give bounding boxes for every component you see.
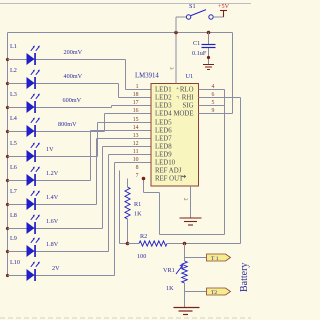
svg-text:11: 11 <box>133 149 139 155</box>
node on REF OUT pin wire <box>142 177 146 181</box>
wire: top bus horizontal <box>8 32 233 34</box>
svg-text:RLO: RLO <box>180 87 194 94</box>
node junction on bus at L6 row <box>6 179 9 182</box>
LED L5 <box>27 143 40 162</box>
svg-text:U1: U1 <box>186 73 194 80</box>
switch S1 <box>186 10 213 20</box>
wire: L8 riser to pin row <box>102 147 104 229</box>
wire: pin8 REF ADJ down <box>119 171 121 244</box>
svg-text:2V: 2V <box>52 265 60 272</box>
wire: switch left riser <box>175 17 177 33</box>
svg-text:LED1: LED1 <box>155 87 172 94</box>
wire: pin row 2 into IC <box>119 97 152 99</box>
svg-text:L7: L7 <box>10 188 17 195</box>
wire: pin8 elbow to node <box>120 243 128 245</box>
svg-text:17: 17 <box>133 100 139 106</box>
wire: L9 riser to pin row <box>108 155 110 252</box>
node junction on bus at L5 row <box>6 155 9 158</box>
wire: L4 row horizontal <box>8 131 105 133</box>
power +5V <box>220 11 227 18</box>
svg-text:800mV: 800mV <box>58 121 77 128</box>
IC U1 LM3914 <box>151 84 199 187</box>
wire: L1 riser to pin row <box>125 60 127 90</box>
LED L2 <box>27 70 40 89</box>
svg-text:1.4V: 1.4V <box>46 194 59 201</box>
wire: pin row 6 into IC <box>91 130 152 132</box>
wire: L3 riser to pin row <box>111 106 113 108</box>
LED L1 <box>27 46 40 65</box>
svg-text:1.8V: 1.8V <box>46 241 59 248</box>
wire: pin4 RLO <box>199 89 225 91</box>
svg-text:VR1: VR1 <box>163 267 175 274</box>
svg-text:LED2: LED2 <box>155 95 172 102</box>
svg-text:400mV: 400mV <box>64 73 83 80</box>
svg-text:LM3914: LM3914 <box>135 73 159 80</box>
svg-text:1.2V: 1.2V <box>46 170 59 177</box>
wire: L2 row horizontal <box>8 83 119 85</box>
sheet border bottom (faint dashes) <box>0 317 251 319</box>
terminal T1 <box>207 254 231 261</box>
potentiometer VR1 zigzag <box>182 261 188 283</box>
svg-text:Battery: Battery <box>239 263 250 292</box>
wire: pin row 3 into IC <box>112 105 152 107</box>
svg-text:LED3: LED3 <box>155 103 172 110</box>
svg-text:1.6V: 1.6V <box>46 218 59 225</box>
node junction on bus at L10 row <box>6 274 9 277</box>
wire: pin row 4 into IC <box>105 113 152 115</box>
wire: VR1 bottom lead <box>184 283 186 307</box>
wire: pin9 MODE <box>199 113 233 115</box>
LED L6 <box>27 167 40 186</box>
sheet border top <box>0 3 251 5</box>
svg-text:LED7: LED7 <box>155 136 172 143</box>
svg-text:L2: L2 <box>10 67 17 74</box>
wire: pin row 9 into IC <box>109 154 152 156</box>
wire: switch right lead <box>213 16 223 18</box>
wire: pin7 stub down <box>127 179 129 188</box>
svg-text:200mV: 200mV <box>64 49 83 56</box>
svg-text:1V: 1V <box>46 146 54 153</box>
svg-text:15: 15 <box>133 117 139 123</box>
ground G1 under C1 <box>203 65 214 70</box>
VR1 wiper arrow <box>176 266 182 274</box>
svg-text:LED8: LED8 <box>155 144 172 151</box>
svg-text:L5: L5 <box>10 140 17 147</box>
wire: REF OUT branch step <box>144 192 160 194</box>
LED L3 <box>27 94 40 113</box>
node junction on bus at L9 row <box>6 250 9 253</box>
wire: vertical A from RLO down <box>224 90 226 235</box>
LED L8 <box>27 215 40 234</box>
svg-text:R2: R2 <box>140 233 147 240</box>
pin numbers right column <box>212 84 215 114</box>
wire: L8 row horizontal <box>8 228 103 230</box>
svg-text:LED5: LED5 <box>155 120 172 127</box>
svg-text:14: 14 <box>133 125 139 131</box>
svg-text:100: 100 <box>137 253 146 260</box>
svg-text:LED10: LED10 <box>155 160 176 167</box>
svg-text:18: 18 <box>133 92 139 98</box>
wire: pin row 8 into IC <box>103 146 152 148</box>
wire: R2 right lead to SIG drop <box>167 243 241 245</box>
svg-text:S1: S1 <box>189 3 196 10</box>
svg-text:C1: C1 <box>193 40 200 47</box>
wire: pin row 10 into IC <box>115 162 152 164</box>
node junction on bus at L7 row <box>6 203 9 206</box>
svg-text:REF OUT: REF OUT <box>155 176 184 183</box>
svg-text:L9: L9 <box>10 235 17 242</box>
wire: REF OUT branch vertical <box>143 179 145 193</box>
wire: pin row 1 into IC <box>126 89 152 91</box>
svg-text:7: 7 <box>136 173 139 179</box>
wire: bus drop to MODE row <box>232 33 234 114</box>
svg-text:10: 10 <box>133 157 139 163</box>
LED L4 <box>27 118 40 137</box>
wire: RHI drop to wiper node <box>240 98 242 244</box>
wire: C1 bottom lead <box>208 48 210 64</box>
node junction on bus at L1 row <box>6 58 9 61</box>
svg-text:T2: T2 <box>211 290 217 296</box>
svg-text:R1: R1 <box>134 201 141 208</box>
svg-text:LED6: LED6 <box>155 128 172 135</box>
pin numbers left column <box>133 84 139 179</box>
node junction on bus at L2 row <box>6 82 9 85</box>
wire: pin6 RHI <box>199 97 241 99</box>
svg-text:LED9: LED9 <box>155 152 172 159</box>
wire: pin row 7 into IC <box>97 138 152 140</box>
wire: L6 riser to pin row <box>90 131 92 181</box>
terminal T2 <box>207 288 231 295</box>
LED L9 <box>27 238 40 257</box>
svg-text:+: + <box>176 86 179 92</box>
ground G3 under VR1 <box>174 308 200 315</box>
node bus/switch junction <box>174 31 178 35</box>
node junction on bus at L3 row <box>6 106 9 109</box>
wire: L10 riser to pin row <box>114 163 116 276</box>
wire: L7 row horizontal <box>8 204 97 206</box>
wire: L7 riser to pin row <box>96 139 98 205</box>
svg-text:16: 16 <box>133 108 139 114</box>
wire: L4 riser to pin row <box>104 114 106 132</box>
wire: IC pin3 V+ stub <box>175 33 177 84</box>
svg-text:SIG: SIG <box>183 103 194 110</box>
svg-text:REF ADJ: REF ADJ <box>155 168 182 175</box>
wire: L6 row horizontal <box>8 180 91 182</box>
svg-text:L6: L6 <box>10 164 17 171</box>
svg-text:RHI: RHI <box>182 95 194 102</box>
wire: IC pin2 V- stub <box>190 186 192 218</box>
resistor R1 zigzag <box>125 187 130 219</box>
svg-text:12: 12 <box>133 141 139 147</box>
svg-text:L8: L8 <box>10 212 17 219</box>
svg-text:+5V: +5V <box>218 3 230 10</box>
wire: REF OUT branch drop <box>159 193 161 235</box>
wire: R1 bottom lead <box>127 219 129 244</box>
wire: T2 lead <box>185 291 207 293</box>
wire: pin row 5 into IC <box>98 122 152 124</box>
wire: L3 row horizontal <box>8 107 112 109</box>
wire: R2 left lead <box>128 243 140 245</box>
wire: pin5 SIG <box>199 105 225 107</box>
svg-text:L4: L4 <box>10 115 17 122</box>
svg-text:T 1: T 1 <box>211 256 219 262</box>
node junction on bus at L8 row <box>6 227 9 230</box>
node R1/R2/REF ADJ junction <box>126 242 130 246</box>
svg-text:13: 13 <box>133 133 139 139</box>
wire: C1 top lead <box>208 33 210 45</box>
svg-text:L1: L1 <box>10 43 17 50</box>
resistor R2 zigzag <box>139 241 167 246</box>
LED L7 <box>27 191 40 210</box>
wire: L9 row horizontal <box>8 251 109 253</box>
LED L10 <box>27 262 40 281</box>
svg-text:0.1uF: 0.1uF <box>192 50 207 57</box>
wire: L5 row horizontal <box>8 156 98 158</box>
node VR1 top junction <box>183 242 187 246</box>
wire: L5 riser to pin row <box>97 123 99 157</box>
wire: L2 riser to pin row <box>118 84 120 98</box>
capacitor C1 <box>202 45 216 48</box>
svg-text:600mV: 600mV <box>63 97 82 104</box>
svg-text:8: 8 <box>136 165 139 171</box>
node junction on bus at L4 row <box>6 130 9 133</box>
svg-text:LED4: LED4 <box>155 111 172 118</box>
wire: T1 lead <box>185 257 207 259</box>
wire: VR1 top lead <box>184 244 186 262</box>
svg-text:1K: 1K <box>166 285 174 292</box>
svg-text:1: 1 <box>136 84 139 90</box>
ground G2 under IC <box>180 218 202 225</box>
node below C1 <box>207 56 210 59</box>
svg-text:1K: 1K <box>134 211 142 218</box>
wire: switch left lead <box>176 16 186 18</box>
wire: left supply bus vertical <box>7 33 9 276</box>
wire: L10 row horizontal <box>8 275 115 277</box>
wire: L1 row horizontal <box>8 59 126 61</box>
wire: A bottom horizontal <box>160 234 225 236</box>
svg-text:L10: L10 <box>10 259 20 266</box>
svg-text:MODE: MODE <box>173 111 193 118</box>
svg-text:L3: L3 <box>10 91 17 98</box>
node C1 top junction <box>207 31 211 35</box>
